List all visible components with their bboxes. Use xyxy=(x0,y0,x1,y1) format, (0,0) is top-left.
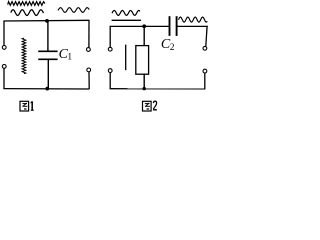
wave: fig1 output low-frequency sine xyxy=(58,8,89,13)
wire: fig2 top-right segment xyxy=(178,25,208,27)
capacitor C1: bottom lead xyxy=(47,60,49,89)
wire: fig1 right side lower segment xyxy=(88,72,90,89)
svg-text:2: 2 xyxy=(170,43,175,53)
capacitor C2: right plate xyxy=(176,16,178,36)
terminal: fig1 output upper circle xyxy=(87,48,91,52)
symbol: fig2 floating vertical DC line xyxy=(125,45,127,71)
label 图1: digit 1 xyxy=(31,101,34,110)
wire: fig2 right side lower segment xyxy=(204,73,206,89)
terminal: fig2 input lower circle xyxy=(108,69,112,73)
wire: fig2 bottom horizontal xyxy=(110,88,206,90)
resistor R (box): top lead xyxy=(143,26,145,45)
label 图2: digit 2 xyxy=(153,101,157,110)
node: fig1 top junction dot xyxy=(45,19,49,23)
wave: fig1 input high-frequency zigzag xyxy=(8,2,45,6)
wire: fig1 left side upper segment xyxy=(3,21,5,46)
capacitor C1: bottom plate xyxy=(38,58,57,60)
wire: fig2 top-left segment xyxy=(110,25,169,27)
wave: fig2 output AC sine xyxy=(179,17,208,22)
wire: fig1 top horizontal xyxy=(3,19,89,22)
resistor R (box): body xyxy=(136,46,149,75)
svg-text:1: 1 xyxy=(67,53,72,63)
wire: fig2 right side upper segment xyxy=(206,26,207,47)
node: fig1 bottom junction dot xyxy=(45,87,49,91)
symbol: fig1 floating vertical high-frequency zigzag xyxy=(22,38,26,74)
terminal: fig1 input lower circle xyxy=(2,65,6,69)
wave: fig2 input AC sine xyxy=(112,10,140,15)
wave: fig1 input low-frequency sine xyxy=(11,10,44,16)
wire: fig1 right side upper segment xyxy=(88,20,90,47)
terminal: fig2 output upper circle xyxy=(203,46,207,50)
wire: fig1 bottom horizontal xyxy=(3,88,89,90)
node: fig2 top junction dot xyxy=(142,24,146,28)
wire: fig2 left side upper segment xyxy=(109,26,111,48)
resistor R (box): bottom lead xyxy=(143,74,145,89)
capacitor C1: top lead xyxy=(47,21,49,51)
node: fig2 bottom junction dot xyxy=(143,87,146,90)
wire: fig1 left side lower segment xyxy=(3,68,5,88)
terminal: fig2 input upper circle xyxy=(108,47,112,51)
capacitor C2: left plate xyxy=(169,16,171,36)
capacitor C1: top plate xyxy=(38,50,57,52)
terminal: fig1 output lower circle xyxy=(87,68,91,72)
label 图2: hand-drawn CJK glyph "图" xyxy=(143,101,152,111)
label 图1: hand-drawn CJK glyph "图" xyxy=(20,101,29,111)
terminal: fig1 input upper circle xyxy=(2,46,6,50)
symbol: fig2 input DC component straight line xyxy=(112,19,141,21)
wire: fig2 left side lower segment xyxy=(109,73,111,89)
terminal: fig2 output lower circle xyxy=(203,69,207,73)
